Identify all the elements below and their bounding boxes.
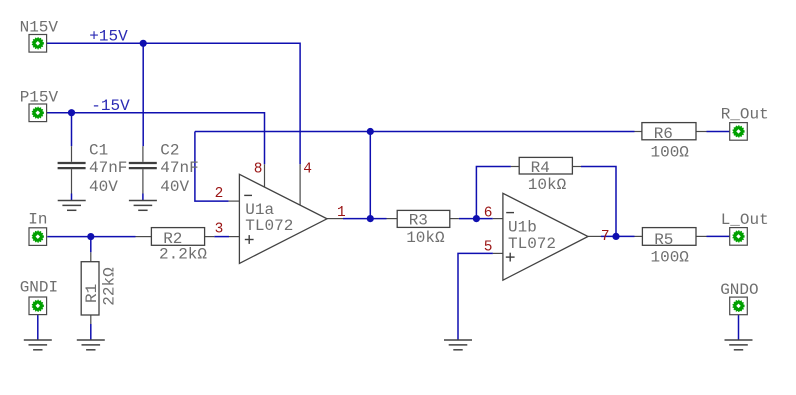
svg-text:10kΩ: 10kΩ bbox=[406, 229, 445, 247]
svg-text:N15V: N15V bbox=[20, 18, 59, 36]
svg-text:C1: C1 bbox=[89, 142, 108, 160]
svg-text:R6: R6 bbox=[654, 125, 673, 143]
svg-text:100Ω: 100Ω bbox=[651, 249, 690, 267]
svg-text:TL072: TL072 bbox=[508, 235, 556, 253]
svg-text:R5: R5 bbox=[654, 231, 673, 249]
svg-text:L_Out: L_Out bbox=[721, 211, 769, 229]
svg-text:+15V: +15V bbox=[89, 27, 128, 45]
svg-text:40V: 40V bbox=[89, 178, 118, 196]
svg-text:7: 7 bbox=[601, 229, 610, 245]
svg-text:2: 2 bbox=[215, 186, 224, 202]
svg-text:C2: C2 bbox=[160, 142, 179, 160]
svg-text:GNDI: GNDI bbox=[20, 278, 58, 296]
svg-text:R4: R4 bbox=[531, 159, 550, 177]
svg-text:R3: R3 bbox=[409, 212, 428, 230]
svg-text:47nF: 47nF bbox=[89, 159, 127, 177]
svg-text:8: 8 bbox=[254, 162, 263, 178]
svg-text:3: 3 bbox=[215, 222, 224, 238]
svg-text:10kΩ: 10kΩ bbox=[528, 176, 567, 194]
svg-text:100Ω: 100Ω bbox=[651, 144, 690, 162]
svg-text:R_Out: R_Out bbox=[721, 105, 769, 123]
svg-text:1: 1 bbox=[337, 205, 346, 221]
svg-text:P15V: P15V bbox=[20, 89, 59, 107]
svg-text:2.2kΩ: 2.2kΩ bbox=[159, 246, 207, 264]
svg-text:-15V: -15V bbox=[91, 97, 130, 115]
svg-text:22kΩ: 22kΩ bbox=[101, 267, 119, 306]
svg-text:6: 6 bbox=[484, 205, 493, 221]
svg-text:47nF: 47nF bbox=[160, 159, 198, 177]
svg-text:40V: 40V bbox=[160, 178, 189, 196]
svg-text:R1: R1 bbox=[83, 284, 101, 303]
svg-text:5: 5 bbox=[484, 240, 493, 256]
svg-text:TL072: TL072 bbox=[245, 217, 293, 235]
svg-text:GNDO: GNDO bbox=[720, 281, 758, 299]
svg-text:4: 4 bbox=[303, 162, 312, 178]
svg-text:In: In bbox=[28, 211, 47, 229]
